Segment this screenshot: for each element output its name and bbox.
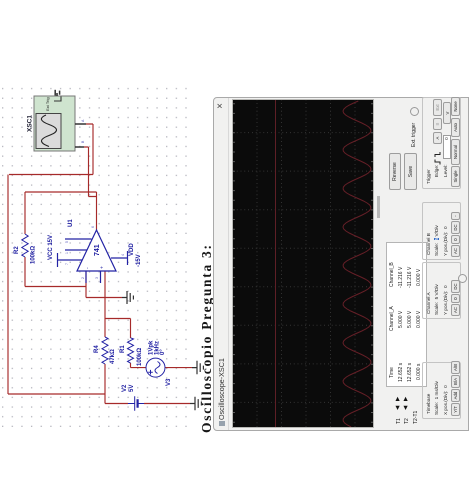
svg-text:0°: 0° [160, 349, 166, 355]
svg-text:2: 2 [81, 277, 85, 279]
svg-text:U1: U1 [68, 219, 74, 227]
svg-text:B: B [81, 140, 85, 143]
svg-text:100kΩ: 100kΩ [31, 246, 37, 264]
svg-text:R2: R2 [14, 246, 20, 254]
svg-text:6: 6 [91, 226, 95, 228]
svg-text:1: 1 [65, 252, 69, 254]
svg-text:A: A [81, 119, 85, 122]
svg-text:Ext Trig: Ext Trig [45, 97, 50, 111]
svg-text:-15V: -15V [136, 254, 142, 267]
svg-text:5V: 5V [129, 385, 135, 392]
svg-text:5: 5 [65, 241, 69, 243]
svg-text:V3: V3 [166, 378, 172, 386]
svg-text:-: - [85, 267, 91, 269]
svg-text:R4: R4 [94, 345, 100, 353]
svg-text:741: 741 [94, 244, 101, 256]
svg-text:+: + [100, 266, 106, 269]
svg-text:100kΩ: 100kΩ [137, 348, 143, 366]
svg-text:3: 3 [95, 277, 99, 279]
svg-text:R1: R1 [120, 345, 126, 353]
svg-text:V2: V2 [122, 384, 128, 392]
svg-text:4: 4 [121, 254, 125, 256]
svg-text:7: 7 [65, 263, 69, 265]
svg-text:47kΩ: 47kΩ [110, 349, 116, 364]
svg-text:XSC1: XSC1 [27, 115, 34, 132]
svg-text:VCC 15V: VCC 15V [48, 235, 54, 260]
svg-text:VDD: VDD [129, 243, 135, 256]
